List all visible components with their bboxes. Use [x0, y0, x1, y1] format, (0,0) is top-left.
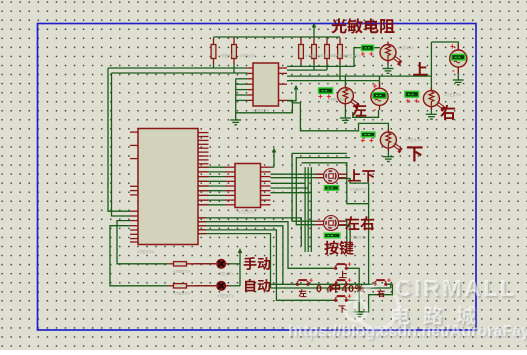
svg-text:<TEXT>: <TEXT> — [238, 210, 255, 215]
svg-text:+: + — [318, 92, 323, 101]
svg-text:+: + — [406, 96, 411, 105]
svg-text:+: + — [347, 260, 352, 269]
svg-text:+: + — [361, 50, 366, 59]
svg-text:<TEXT>: <TEXT> — [405, 138, 422, 143]
svg-text:+: + — [361, 136, 366, 145]
svg-text:<TEXT>: <TEXT> — [350, 235, 367, 240]
svg-text:https://blog.csdn.net/AuroraFa: https://blog.csdn.net/AuroraFaye — [288, 323, 527, 340]
svg-text:<TEXT>: <TEXT> — [173, 291, 190, 296]
svg-text:<TEXT>: <TEXT> — [240, 54, 257, 59]
svg-text:+: + — [369, 136, 374, 145]
svg-text:+: + — [373, 82, 378, 91]
svg-text:<TEXT>: <TEXT> — [217, 272, 234, 277]
svg-text:-: - — [374, 105, 377, 114]
svg-text:<TEXT>: <TEXT> — [219, 54, 236, 59]
svg-text:<TEXT>: <TEXT> — [252, 108, 269, 113]
svg-text:<TEXT>: <TEXT> — [328, 97, 345, 102]
svg-text:<TEXT>: <TEXT> — [350, 187, 367, 192]
svg-text:+: + — [309, 276, 314, 285]
svg-text:<TEXT>: <TEXT> — [444, 93, 461, 98]
svg-text:CIRMALL: CIRMALL — [395, 275, 516, 301]
svg-text:<TEXT>: <TEXT> — [137, 250, 154, 255]
svg-text:+: + — [414, 96, 419, 105]
svg-text:+: + — [450, 42, 455, 51]
svg-text:+: + — [369, 50, 374, 59]
svg-text:+: + — [387, 276, 392, 285]
svg-text:<TEXT>: <TEXT> — [344, 54, 361, 59]
svg-text:<TEXT>: <TEXT> — [397, 46, 414, 51]
svg-text:<TEXT>: <TEXT> — [217, 294, 234, 299]
svg-text:<TEXT>: <TEXT> — [173, 269, 190, 274]
svg-text:-: - — [452, 66, 455, 75]
svg-text:0 4: 0 4 — [316, 283, 333, 295]
